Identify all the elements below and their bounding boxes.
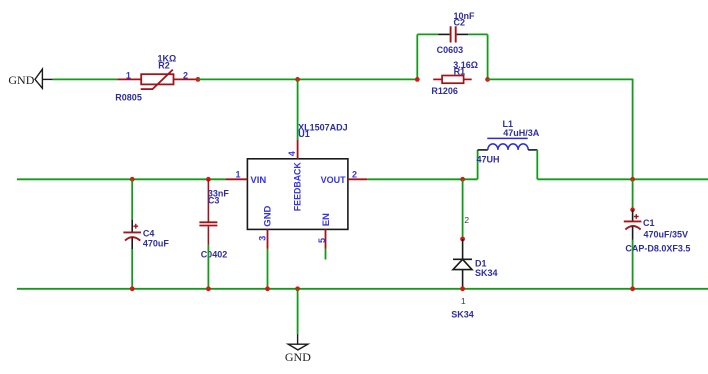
node junction dot U1 GND bottom bbox=[265, 286, 270, 291]
wire EN stub bbox=[325, 249, 327, 260]
svg-text:D1: D1 bbox=[475, 258, 487, 268]
node junction dot C4 bottom bbox=[130, 286, 135, 291]
inductor L1 bbox=[478, 138, 538, 150]
node junction dot diode anode bbox=[460, 286, 465, 291]
svg-text:470uF: 470uF bbox=[143, 239, 170, 249]
node junction dot R2-right bbox=[196, 77, 201, 82]
svg-text:2: 2 bbox=[352, 169, 357, 179]
wire inductor right riser bbox=[536, 150, 538, 179]
wire feedback vertical bbox=[297, 79, 299, 139]
op-amp U1 XL1507ADJ box bbox=[247, 159, 348, 230]
resistor R1 bbox=[433, 76, 472, 84]
wire top rail: GND port to R2 bbox=[53, 78, 118, 80]
wire inductor left riser bbox=[477, 150, 479, 179]
svg-text:GND: GND bbox=[263, 205, 274, 226]
svg-text:R1206: R1206 bbox=[431, 86, 458, 96]
wire C3 branch lower bbox=[207, 245, 209, 289]
wire top rail: R2 to C2/R1 branch bbox=[198, 78, 417, 80]
wire C2 branch right vertical bbox=[487, 34, 489, 79]
svg-text:C0402: C0402 bbox=[201, 250, 228, 260]
wire C2 top right bbox=[468, 33, 487, 35]
svg-text:470uF/35V: 470uF/35V bbox=[644, 229, 689, 239]
node junction dot switch node bbox=[460, 177, 465, 182]
wire mid rail left bbox=[17, 178, 226, 180]
U1 pin 2 lead bbox=[348, 178, 367, 180]
wire top rail: R1 to right corner bbox=[488, 78, 634, 80]
svg-text:1: 1 bbox=[236, 169, 241, 179]
capacitor C1 polarized bbox=[624, 210, 642, 240]
svg-text:C1: C1 bbox=[643, 218, 655, 228]
wire C2 branch left vertical bbox=[416, 34, 418, 79]
svg-text:1: 1 bbox=[461, 296, 466, 306]
svg-text:R0805: R0805 bbox=[115, 93, 142, 103]
svg-text:R2: R2 bbox=[158, 61, 170, 71]
wire C1 branch lower bbox=[632, 240, 634, 289]
wire GND stub vertical bbox=[297, 289, 299, 334]
svg-text:47UH: 47UH bbox=[477, 155, 500, 165]
svg-text:VIN: VIN bbox=[250, 175, 266, 186]
node junction dot C1 bottom bbox=[630, 286, 635, 291]
wire bottom rail bbox=[17, 288, 708, 290]
svg-text:U1: U1 bbox=[298, 129, 310, 139]
svg-text:2: 2 bbox=[183, 71, 188, 81]
wire VOUT to switch node bbox=[367, 178, 477, 180]
wire right vertical drop bbox=[632, 79, 634, 179]
node junction dot C1 pin bbox=[630, 207, 635, 212]
svg-text:CAP-D8.0XF3.5: CAP-D8.0XF3.5 bbox=[625, 244, 690, 254]
wire C4 branch lower bbox=[131, 249, 133, 289]
node junction dot C4 top bbox=[130, 177, 135, 182]
svg-text:C0603: C0603 bbox=[437, 45, 464, 55]
U1 pin 5 lead bbox=[325, 229, 327, 249]
svg-text:C4: C4 bbox=[143, 229, 155, 239]
svg-text:VOUT: VOUT bbox=[321, 175, 346, 186]
capacitor C3 bbox=[199, 179, 217, 245]
node junction dot diode cathode bbox=[460, 237, 465, 242]
ground GND bottom symbol bbox=[288, 334, 308, 350]
U1 pin 4 lead bbox=[297, 140, 299, 159]
svg-text:C3: C3 bbox=[208, 196, 220, 206]
node junction dot C1 top bbox=[630, 177, 635, 182]
node junction dot C3 bottom bbox=[206, 286, 211, 291]
svg-text:5: 5 bbox=[317, 238, 327, 243]
capacitor C4 polarized bbox=[123, 220, 141, 249]
node junction dot R1-left bbox=[415, 77, 420, 82]
svg-text:SK34: SK34 bbox=[451, 310, 474, 320]
svg-text:R1: R1 bbox=[454, 66, 466, 76]
resistor R2 bbox=[117, 70, 198, 90]
U1 pin 1 lead bbox=[226, 178, 248, 180]
svg-text:4: 4 bbox=[287, 151, 297, 156]
wire mid rail right bbox=[537, 178, 708, 180]
node junction dot GND stub bbox=[295, 286, 300, 291]
node junction dot feedback tap bbox=[295, 77, 300, 82]
wire U1 GND pin to bottom rail bbox=[267, 249, 269, 289]
wire C2 top left bbox=[417, 33, 438, 35]
svg-text:SK34: SK34 bbox=[475, 268, 498, 278]
svg-text:FEEDBACK: FEEDBACK bbox=[293, 162, 304, 211]
svg-text:C2: C2 bbox=[454, 18, 466, 28]
svg-text:GND: GND bbox=[285, 350, 311, 364]
svg-text:1: 1 bbox=[126, 71, 131, 81]
svg-text:EN: EN bbox=[321, 213, 332, 226]
svg-text:47uH/3A: 47uH/3A bbox=[503, 128, 540, 138]
ground GND left port symbol bbox=[35, 69, 53, 88]
svg-text:2: 2 bbox=[464, 215, 469, 225]
node junction dot C3 top bbox=[206, 177, 211, 182]
wire C4 branch upper bbox=[131, 179, 133, 219]
diode D1 SK34 bbox=[453, 239, 472, 289]
wire diode top bbox=[462, 179, 464, 239]
svg-text:3: 3 bbox=[257, 236, 267, 241]
svg-text:GND: GND bbox=[8, 73, 34, 87]
wire C1 branch upper bbox=[632, 179, 634, 209]
U1 pin 3 lead bbox=[267, 229, 269, 249]
node junction dot R1-right bbox=[485, 77, 490, 82]
capacitor C2 bbox=[438, 26, 468, 42]
